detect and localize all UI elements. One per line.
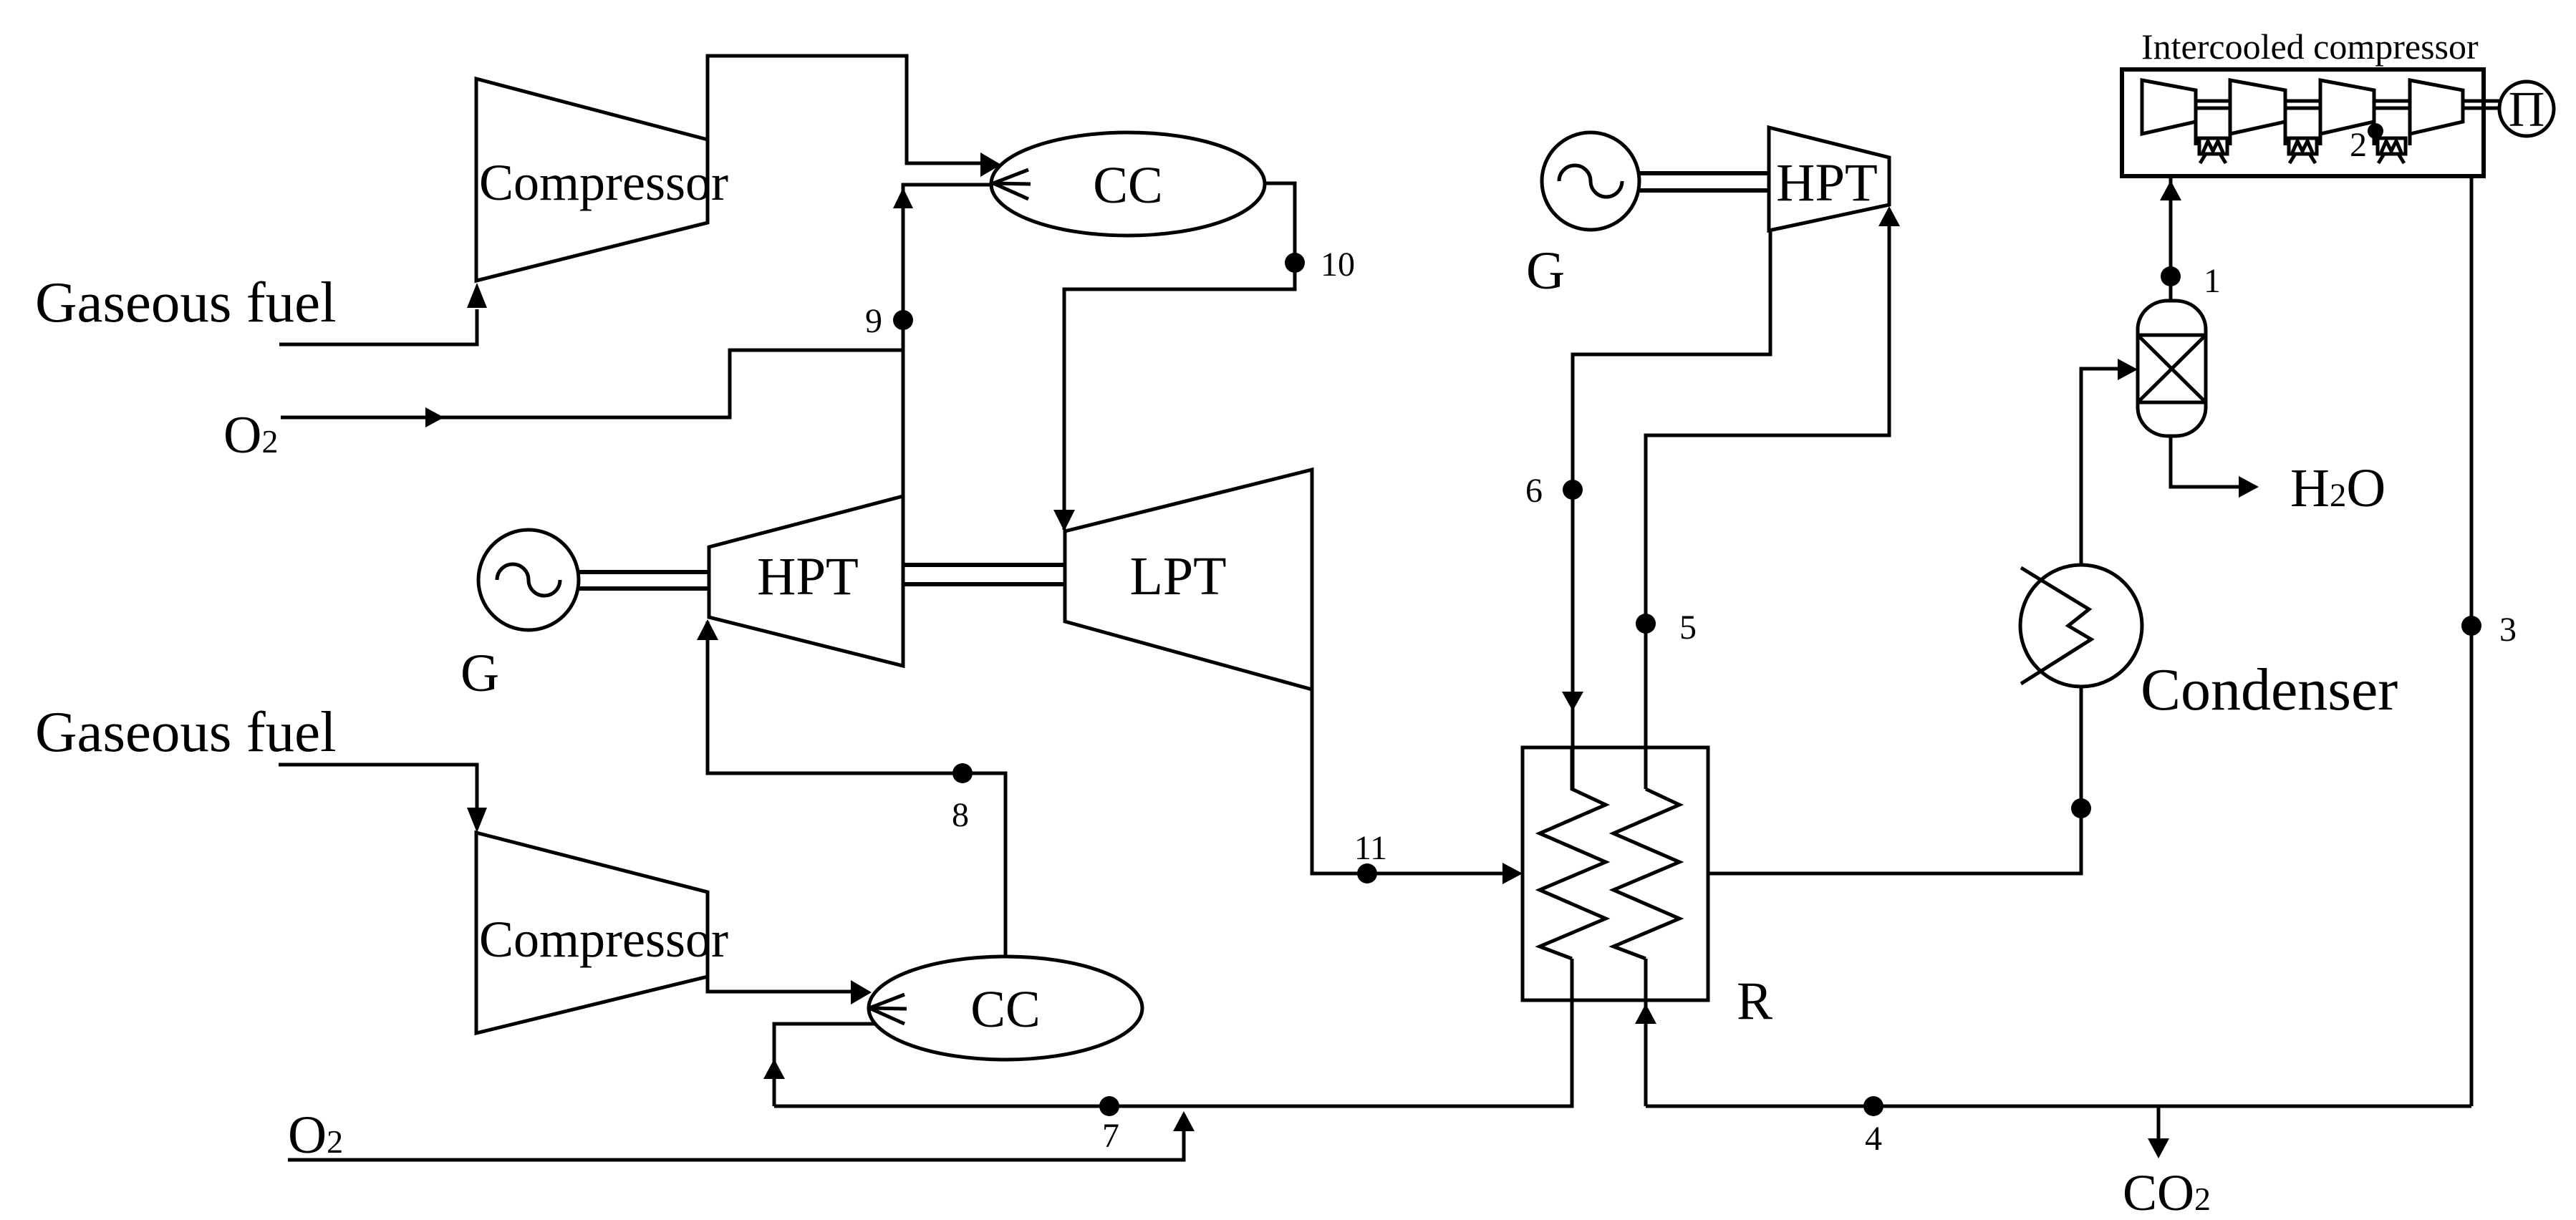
svg-text:1: 1 (2204, 262, 2221, 300)
svg-text:4: 4 (1865, 1120, 1882, 1158)
wire stream 4 into R bottom (1635, 959, 1656, 1106)
svg-text:2: 2 (2350, 126, 2367, 164)
svg-text:Gaseous fuel: Gaseous fuel (35, 699, 337, 764)
node 3 (2461, 611, 2517, 649)
shaft G2-HPT2 (1638, 173, 1770, 190)
wire O2 top to node 9 line (281, 350, 903, 427)
node 7 (1099, 1096, 1119, 1155)
wire stream 8 from CC2 to HPT1 inlet (697, 619, 1005, 957)
svg-text:11: 11 (1354, 829, 1387, 867)
svg-text:10: 10 (1321, 246, 1355, 284)
node 10 (1285, 246, 1355, 284)
IC intercooler 3 (2374, 122, 2410, 163)
svg-text:HPT: HPT (757, 547, 859, 606)
wire C2 outlet to CC2 (708, 977, 872, 1004)
shaft HPT1-LPT (903, 565, 1065, 584)
combustion chamber CC1 (991, 132, 1265, 236)
junction dot below condenser (2071, 798, 2091, 818)
node 5 (1636, 609, 1697, 647)
wire bottom recycle right segment (1646, 1105, 2471, 1108)
IC stage 3 (2320, 80, 2374, 134)
wire stream 3 recycle down right side (2470, 176, 2474, 1106)
turbine LPT (1065, 470, 1312, 689)
wire C1 outlet duct to CC1 (708, 56, 1001, 177)
R right coil (1613, 789, 1679, 959)
wire stream 7 mix into CC2 (763, 1024, 875, 1106)
compressor C2 (476, 833, 728, 1033)
IC intercooler 2 (2285, 122, 2320, 163)
svg-text:5: 5 (1679, 609, 1697, 647)
svg-text:7: 7 (1102, 1117, 1119, 1155)
wire H2O drain (2171, 436, 2386, 518)
wire fuel2 to compressor C2 inlet (279, 765, 487, 833)
wire R outlet to condenser (1708, 687, 2081, 873)
combustion chamber CC2 (869, 957, 1142, 1060)
wire LPT exhaust stream 11 to R (1312, 689, 1523, 884)
svg-text:Gaseous fuel: Gaseous fuel (35, 270, 337, 334)
wire stream 9 (fuel+O2 mix) up to CC1 tip (893, 185, 993, 496)
motor P circle (2499, 82, 2554, 137)
node 9 (865, 302, 913, 340)
IC stage 1 (2142, 80, 2196, 134)
node 4 (1863, 1096, 1883, 1158)
wire condenser to separator (2081, 359, 2138, 565)
injector fan CC2 (869, 994, 907, 1024)
node 6 (1525, 472, 1583, 510)
shaft G1-HPT1 (577, 572, 709, 589)
IC shaft 2 (2285, 101, 2320, 108)
wire CC1 outlet to LPT inlet (1053, 183, 1295, 531)
IC stage 2 (2230, 80, 2285, 134)
label O2 (top) (223, 406, 278, 465)
wire fuel1 to compressor C1 inlet (279, 283, 487, 344)
label O2 (bottom) (288, 1105, 343, 1165)
IC shaft to motor (2463, 101, 2499, 108)
svg-text:R: R (1737, 972, 1772, 1031)
wire stream 6 HPT2 exhaust into R (1562, 231, 1770, 789)
label Gaseous fuel (bottom) (35, 699, 337, 764)
node 11 (1354, 829, 1387, 883)
node 2 (2350, 123, 2383, 164)
svg-text:CC: CC (1093, 156, 1162, 214)
wire O2 bottom joining stream 7 line (288, 1111, 1195, 1160)
node 1 (2161, 262, 2221, 300)
svg-text:8: 8 (952, 796, 969, 834)
svg-text:Π: Π (2509, 82, 2545, 137)
svg-text:6: 6 (1525, 472, 1543, 510)
svg-text:Intercooled compressor: Intercooled compressor (2141, 26, 2479, 67)
turbine HPT1 (709, 496, 903, 666)
generator G1 (460, 530, 579, 703)
turbine HPT2 (1769, 127, 1889, 231)
label Gaseous fuel (top) (35, 270, 337, 334)
wire stream 1 separator to intercooled compressor (2160, 176, 2181, 301)
svg-text:Compressor: Compressor (479, 911, 728, 968)
intercooled compressor box (2122, 26, 2484, 176)
svg-text:9: 9 (865, 302, 882, 340)
svg-text:Condenser: Condenser (2141, 657, 2398, 723)
generator G2 (1526, 132, 1639, 301)
svg-text:G: G (460, 644, 499, 703)
injector fan CC1 (993, 170, 1031, 199)
compressor C1 (476, 79, 728, 281)
IC shaft 1 (2196, 101, 2230, 108)
IC shaft 3 (2374, 101, 2410, 108)
svg-text:HPT: HPT (1776, 153, 1878, 213)
node 8 (952, 763, 973, 834)
IC intercooler 1 (2196, 122, 2230, 163)
separator vessel (2138, 301, 2206, 436)
svg-text:Compressor: Compressor (479, 154, 728, 211)
condenser (2020, 565, 2398, 723)
heat exchanger R box (1523, 747, 1772, 1031)
svg-text:3: 3 (2499, 611, 2517, 649)
svg-text:LPT: LPT (1129, 546, 1226, 606)
wire bottom recycle left segment (stream 7) (774, 959, 1572, 1106)
R left coil (1540, 747, 1606, 959)
svg-text:G: G (1526, 241, 1565, 301)
IC stage 4 (2410, 80, 2463, 134)
wire stream 5 R to HPT2 inlet (1646, 206, 1900, 789)
svg-text:CC: CC (970, 980, 1040, 1038)
wire CO2 export (2123, 1106, 2211, 1220)
